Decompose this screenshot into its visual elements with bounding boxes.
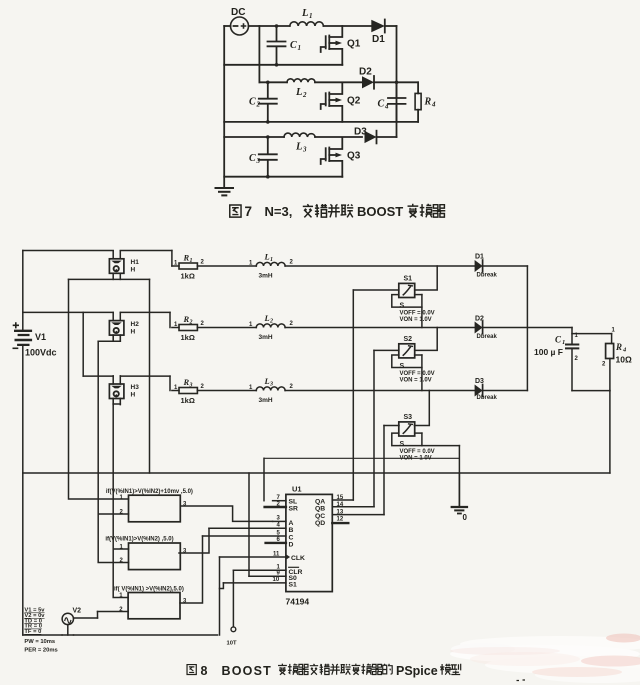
svg-text:3mH: 3mH: [259, 397, 273, 404]
svg-text:C: C: [555, 335, 562, 345]
svg-text:V2: V2: [73, 608, 82, 615]
svg-text:PSpice: PSpice: [396, 664, 438, 678]
svg-text:H: H: [131, 392, 136, 399]
svg-text:H3: H3: [131, 384, 140, 391]
svg-text:3: 3: [302, 146, 307, 154]
svg-text:H2: H2: [131, 321, 140, 328]
svg-text:S3: S3: [404, 414, 413, 421]
svg-text:2: 2: [189, 320, 193, 326]
svg-text:11: 11: [273, 551, 280, 557]
svg-text:1: 1: [562, 339, 565, 346]
svg-text:0: 0: [463, 513, 468, 522]
svg-text:SL: SL: [289, 499, 298, 506]
svg-text:1: 1: [309, 12, 313, 20]
svg-text:QD: QD: [315, 520, 325, 527]
svg-text:BOOST: BOOST: [222, 664, 272, 678]
svg-text:BOOST: BOOST: [357, 204, 403, 219]
svg-text:Dbreak: Dbreak: [477, 395, 498, 401]
svg-text:D: D: [289, 542, 294, 549]
svg-text:D2: D2: [359, 67, 372, 78]
svg-text:A: A: [289, 520, 294, 527]
svg-text:2: 2: [269, 319, 273, 325]
svg-text:C: C: [249, 153, 256, 164]
svg-text:Q2: Q2: [347, 96, 361, 107]
svg-text:1kΩ: 1kΩ: [181, 333, 195, 342]
svg-text:TF = 0: TF = 0: [24, 629, 41, 635]
svg-text:Q3: Q3: [347, 151, 361, 162]
svg-text:H: H: [131, 267, 136, 274]
svg-text:1: 1: [270, 257, 273, 263]
svg-text:Q1: Q1: [347, 39, 361, 50]
svg-text:DC: DC: [231, 7, 245, 18]
svg-text:C: C: [289, 535, 294, 542]
svg-text:1kΩ: 1kΩ: [181, 272, 195, 281]
svg-text:1: 1: [190, 258, 193, 264]
svg-text:100 µ F: 100 µ F: [534, 347, 563, 357]
svg-text:R: R: [183, 314, 190, 324]
svg-text:D1: D1: [372, 34, 385, 45]
svg-text:Dbreak: Dbreak: [477, 273, 498, 279]
svg-text:S: S: [400, 363, 405, 370]
svg-text:R: R: [183, 377, 190, 387]
svg-text:14: 14: [337, 502, 344, 508]
svg-text:C: C: [290, 40, 297, 51]
svg-text:V1: V1: [35, 332, 46, 342]
svg-text:D1: D1: [475, 254, 484, 261]
svg-text:R: R: [424, 97, 432, 108]
svg-text:15: 15: [337, 495, 344, 501]
svg-text:7: 7: [245, 204, 253, 219]
svg-text:L: L: [264, 376, 270, 386]
svg-text:VON = 1.0V: VON = 1.0V: [400, 377, 432, 383]
svg-text:3: 3: [256, 157, 261, 165]
svg-text:B: B: [289, 527, 294, 534]
svg-text:4: 4: [431, 101, 436, 109]
svg-text:2: 2: [256, 101, 261, 109]
svg-text:PER = 20ms: PER = 20ms: [24, 648, 57, 654]
svg-text:S2: S2: [404, 336, 413, 343]
svg-text:N=3,: N=3,: [265, 204, 293, 219]
svg-text:QB: QB: [315, 505, 325, 512]
svg-text:VON = 1 0V: VON = 1 0V: [400, 455, 432, 461]
svg-text:if(V(%IN1)>V(%IN2) ,5.0): if(V(%IN1)>V(%IN2) ,5.0): [105, 537, 173, 543]
svg-text:U1: U1: [292, 485, 302, 494]
svg-text:1kΩ: 1kΩ: [181, 396, 195, 405]
svg-text:L: L: [264, 252, 270, 262]
svg-text:3: 3: [269, 382, 273, 388]
svg-text:VOFF = 0.0V: VOFF = 0.0V: [400, 371, 435, 377]
svg-text:3mH: 3mH: [259, 334, 273, 341]
svg-text:10T: 10T: [227, 641, 237, 647]
svg-text:H1: H1: [131, 259, 140, 266]
svg-text:H: H: [131, 328, 136, 335]
svg-text:S: S: [400, 441, 405, 448]
svg-text:3mH: 3mH: [259, 273, 273, 280]
svg-text:1: 1: [298, 44, 302, 52]
svg-text:100Vdc: 100Vdc: [25, 348, 57, 358]
svg-text:VOFF = 0.0V: VOFF = 0.0V: [400, 311, 435, 317]
svg-text:if( V(%IN1) >V(%IN2),5.0): if( V(%IN1) >V(%IN2),5.0): [114, 586, 184, 592]
svg-text:13: 13: [337, 510, 344, 516]
svg-text:SR: SR: [289, 506, 299, 513]
svg-text:S1: S1: [289, 582, 298, 589]
svg-text:C: C: [249, 97, 256, 108]
svg-text:D3: D3: [475, 378, 484, 385]
svg-text:2: 2: [302, 91, 307, 99]
svg-text:L: L: [295, 142, 302, 153]
svg-text:8: 8: [201, 664, 208, 678]
svg-text:D2: D2: [475, 316, 484, 323]
svg-text:10: 10: [273, 577, 280, 583]
svg-text:VOFF = 0.0V: VOFF = 0.0V: [400, 449, 435, 455]
svg-text:PW = 10ms: PW = 10ms: [24, 639, 55, 645]
svg-text:4: 4: [384, 103, 389, 111]
svg-text:C: C: [378, 99, 385, 110]
svg-text:74194: 74194: [286, 597, 310, 607]
svg-text:D3: D3: [354, 127, 367, 138]
svg-text:CLK: CLK: [291, 555, 305, 562]
svg-text:S: S: [400, 303, 405, 310]
svg-text:L: L: [301, 8, 308, 19]
svg-text:R: R: [183, 253, 190, 263]
svg-text:L: L: [295, 87, 302, 98]
svg-text:3: 3: [189, 383, 193, 389]
svg-text:S1: S1: [404, 276, 413, 283]
svg-text:R: R: [615, 342, 622, 352]
svg-text:Dbreak: Dbreak: [477, 334, 498, 340]
svg-text:12: 12: [337, 516, 344, 522]
svg-text:10Ω: 10Ω: [616, 355, 632, 365]
svg-text:VON = 1.0V: VON = 1.0V: [400, 317, 432, 323]
svg-text:L: L: [264, 313, 270, 323]
